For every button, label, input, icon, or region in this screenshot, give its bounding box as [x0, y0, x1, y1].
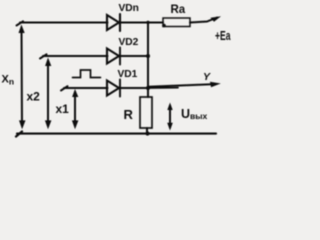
junction VD1-bus — [146, 86, 150, 90]
arrow input x1 level — [72, 89, 79, 129]
wire input Xn to VDn anode — [17, 21, 108, 25]
svg-text:VD2: VD2 — [119, 37, 139, 48]
svg-text:VD1: VD1 — [118, 69, 138, 80]
svg-text:+Ea: +Ea — [215, 28, 231, 43]
wire input x1 to VD1 anode — [61, 86, 108, 90]
arrow input Xn level — [19, 25, 26, 130]
svg-text:x2: x2 — [27, 89, 41, 103]
wire VDn cathode to node A and resistor Ra — [120, 22, 163, 24]
junction R-rail — [145, 131, 149, 135]
svg-text:VDn: VDn — [119, 3, 139, 14]
wire output Y with arrowhead — [148, 82, 221, 88]
wire VD1 cathode to bus — [120, 87, 148, 89]
wire input x2 to VD2 anode — [40, 54, 108, 58]
wire bottom rail — [16, 132, 216, 137]
junction VDn-bus — [146, 21, 149, 24]
diode VDn — [107, 14, 120, 31]
resistor R — [140, 97, 152, 128]
resistor Ra — [162, 18, 190, 27]
wire Ra to +Ea with arrowhead — [190, 16, 221, 22]
junction VD2-bus — [146, 54, 150, 58]
pulse waveform symbol — [73, 70, 101, 78]
svg-text:Y: Y — [203, 71, 211, 83]
diode VD1 — [107, 80, 120, 97]
svg-text:x1: x1 — [56, 102, 70, 116]
arrow Uvyh output voltage — [167, 103, 173, 131]
svg-text:R: R — [124, 107, 134, 122]
svg-text:Ra: Ra — [171, 4, 186, 16]
diode VD2 — [107, 48, 120, 65]
arrow input x2 level — [45, 58, 52, 130]
node A common cathode bus — [147, 23, 149, 98]
wire VD2 cathode to bus — [120, 55, 148, 57]
wire R bottom to rail — [146, 128, 148, 134]
